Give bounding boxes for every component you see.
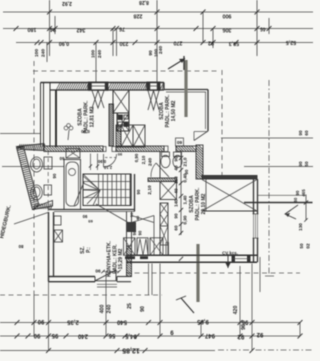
svg-text:02: 02 (306, 243, 311, 249)
svg-text:240: 240 (77, 333, 88, 339)
svg-text:94: 94 (50, 26, 56, 32)
svg-text:2,10: 2,10 (103, 165, 112, 170)
svg-text:90: 90 (148, 50, 154, 56)
svg-text:420: 420 (233, 306, 239, 315)
svg-text:60: 60 (174, 225, 179, 231)
svg-text:228: 228 (134, 13, 143, 19)
svg-text:94,5: 94,5 (125, 333, 137, 339)
svg-text:CV kcs.: CV kcs. (222, 251, 238, 256)
svg-text:240: 240 (148, 158, 154, 166)
svg-text:P.:: P.: (86, 247, 92, 253)
svg-text:52,5: 52,5 (286, 39, 296, 45)
svg-text:60: 60 (88, 219, 93, 224)
svg-text:0,40: 0,40 (183, 173, 188, 182)
svg-text:90: 90 (174, 213, 179, 219)
svg-text:0,90: 0,90 (134, 153, 139, 162)
svg-text:90: 90 (298, 161, 303, 167)
svg-text:240: 240 (158, 46, 164, 54)
svg-text:240: 240 (97, 50, 103, 58)
svg-text:90: 90 (95, 268, 101, 274)
svg-text:90: 90 (37, 318, 44, 324)
svg-text:25: 25 (127, 303, 133, 309)
svg-text:90: 90 (174, 156, 179, 162)
svg-text:100: 100 (34, 49, 40, 57)
svg-text:100: 100 (91, 50, 97, 58)
svg-text:342: 342 (77, 27, 86, 33)
svg-text:540: 540 (116, 319, 127, 325)
svg-text:0,90: 0,90 (183, 215, 188, 224)
svg-text:95: 95 (51, 332, 58, 338)
svg-text:9,85: 9,85 (197, 318, 209, 324)
svg-text:900: 900 (223, 13, 232, 19)
svg-text:15,29 M2: 15,29 M2 (118, 248, 124, 269)
svg-text:240: 240 (107, 305, 113, 314)
svg-text:92: 92 (237, 333, 244, 339)
svg-text:56: 56 (108, 332, 115, 338)
svg-text:92: 92 (256, 331, 263, 337)
svg-text:14,50 M2: 14,50 M2 (171, 100, 177, 121)
svg-text:40: 40 (174, 165, 179, 171)
svg-text:465: 465 (301, 189, 306, 197)
svg-text:90: 90 (82, 214, 87, 219)
svg-text:8,28: 8,28 (139, 0, 149, 5)
svg-text:2,10: 2,10 (141, 155, 146, 164)
svg-text:90: 90 (33, 332, 40, 338)
svg-text:80: 80 (18, 244, 23, 249)
svg-text:2,92: 2,92 (62, 0, 72, 6)
svg-text:2,10: 2,10 (147, 185, 153, 195)
svg-text:947: 947 (204, 332, 215, 338)
svg-text:40: 40 (135, 215, 140, 220)
svg-text:90: 90 (117, 152, 122, 157)
svg-text:90: 90 (138, 230, 143, 235)
svg-text:12,81 M2: 12,81 M2 (90, 106, 96, 127)
svg-text:60: 60 (177, 139, 183, 145)
svg-text:230: 230 (120, 40, 129, 46)
svg-text:96: 96 (241, 324, 247, 330)
svg-text:240: 240 (41, 49, 47, 57)
svg-text:2,35: 2,35 (67, 319, 79, 325)
svg-text:40: 40 (174, 188, 179, 194)
svg-text:180: 180 (28, 26, 37, 32)
svg-text:46: 46 (260, 26, 266, 32)
svg-text:0,90: 0,90 (97, 159, 106, 164)
svg-text:90: 90 (52, 173, 57, 178)
svg-text:96: 96 (241, 319, 248, 325)
svg-text:90: 90 (140, 306, 146, 312)
svg-text:130: 130 (298, 223, 303, 231)
svg-text:20,10 M2: 20,10 M2 (201, 193, 207, 214)
svg-text:21,0: 21,0 (183, 157, 188, 166)
svg-text:12,85: 12,85 (122, 347, 140, 354)
svg-text:140: 140 (174, 199, 179, 207)
svg-text:76: 76 (119, 26, 125, 32)
svg-text:50: 50 (304, 161, 309, 167)
svg-text:60: 60 (59, 156, 64, 161)
svg-text:90: 90 (298, 130, 303, 136)
svg-text:92: 92 (208, 40, 214, 46)
svg-text:0,90: 0,90 (59, 40, 69, 46)
svg-text:270: 270 (174, 40, 183, 46)
svg-text:306: 306 (223, 27, 232, 33)
svg-text:110: 110 (174, 176, 179, 184)
svg-text:50: 50 (299, 243, 304, 249)
svg-text:1,40: 1,40 (183, 195, 188, 204)
svg-text:60: 60 (293, 197, 298, 202)
svg-text:58,3: 58,3 (229, 40, 239, 46)
svg-text:400: 400 (100, 305, 106, 314)
svg-text:90: 90 (136, 189, 141, 194)
svg-text:60: 60 (304, 130, 309, 136)
svg-text:90: 90 (295, 190, 300, 195)
